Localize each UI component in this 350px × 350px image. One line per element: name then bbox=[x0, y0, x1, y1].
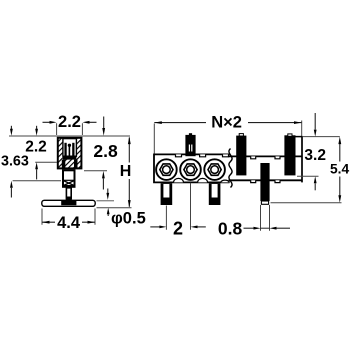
svg-text:H: H bbox=[120, 163, 132, 180]
svg-text:N×2: N×2 bbox=[211, 113, 242, 131]
3.2 bottom ext line bbox=[297, 175, 319, 177]
dimension 2.2 top: arrows bbox=[50, 121, 57, 124]
svg-text:5.4: 5.4 bbox=[330, 161, 350, 176]
dimension 3.63: top arrow bbox=[10, 126, 12, 131]
contact spring left bbox=[64, 143, 66, 156]
cavity shelf bbox=[63, 156, 77, 159]
top edge notches right bbox=[251, 156, 280, 158]
dimension 4.4: dim line + arrows bbox=[42, 221, 95, 223]
section pin up C bbox=[284, 135, 295, 175]
dimension 3.63: bottom ext line bbox=[13, 180, 61, 182]
svg-text:3.63: 3.63 bbox=[1, 153, 29, 169]
pin P3 below U3 bbox=[209, 183, 221, 205]
section pin down B bbox=[260, 163, 269, 201]
dimension phi0.5: upper arrow bbox=[107, 189, 109, 194]
body top extension line bbox=[9, 135, 130, 137]
dimension 2.2 left: bottom arrow bbox=[35, 162, 38, 169]
dimension 3.63: bottom arrow bbox=[10, 181, 13, 188]
legs (solder leads) bbox=[42, 200, 95, 206]
contact spring right bbox=[72, 143, 74, 156]
contact needle bbox=[68, 144, 71, 147]
socket contact U1 bbox=[156, 159, 177, 180]
svg-text:4.4: 4.4 bbox=[57, 214, 81, 232]
svg-text:2.8: 2.8 bbox=[93, 141, 118, 161]
dimension 2.2 left: top arrow bbox=[36, 126, 38, 131]
leg junction fill bbox=[61, 197, 76, 206]
socket tube wall right bbox=[74, 160, 78, 169]
pin top ext line (3.2 / 5.4 top) bbox=[303, 136, 340, 138]
dimension 0.8: right-pointing arrow bbox=[244, 227, 255, 229]
pin P1 below U1 bbox=[161, 183, 173, 205]
pin shank bbox=[66, 188, 71, 199]
dimension 2: right arrow bbox=[191, 226, 198, 229]
dimension 2: left arrow bbox=[150, 226, 159, 228]
socket tube wall left bbox=[62, 160, 66, 169]
section pin up A bbox=[236, 136, 246, 176]
svg-text:0.8: 0.8 bbox=[218, 218, 243, 238]
dimension phi0.5: lower arrow bbox=[107, 208, 110, 215]
dimension 2.8: top arrow bbox=[103, 117, 105, 129]
top edge notches bbox=[176, 154, 229, 156]
socket cavity bbox=[63, 139, 77, 157]
housing body (hatched) left view bbox=[58, 138, 82, 169]
dimension 3.2: top arrow bbox=[314, 113, 316, 130]
dimension Nx2: dim line bbox=[154, 122, 301, 124]
stem bbox=[63, 170, 75, 187]
bottom edge tabs right bbox=[251, 180, 280, 182]
dimension 3.2: bottom arrow bbox=[314, 176, 317, 183]
leg top ext line bbox=[97, 200, 115, 202]
dimension 0.8: ext lines bbox=[261, 205, 270, 231]
dimension H: dim line bbox=[128, 138, 130, 207]
dimension 2.2 top: dim line left segment bbox=[43, 121, 97, 123]
5.4 bottom ext line bbox=[271, 202, 342, 204]
housing strip left part bbox=[154, 154, 230, 182]
svg-text:3.2: 3.2 bbox=[304, 147, 326, 164]
leg bottom ext line bbox=[97, 207, 132, 209]
dimension 0.8: left-pointing arrow bbox=[270, 227, 277, 230]
dimension 4.4: ext lines bbox=[42, 209, 95, 225]
dimension 2.2 top: extension lines bbox=[57, 123, 83, 135]
dimension H: text bbox=[120, 164, 134, 178]
socket contact U2 bbox=[180, 159, 201, 180]
housing strip right part (section) bbox=[229, 156, 303, 180]
dimension 5.4: dim line + inside arrows bbox=[339, 141, 341, 198]
svg-text:2.2: 2.2 bbox=[58, 113, 81, 131]
break squiggle bbox=[229, 149, 232, 188]
dimension 2.8: bottom arrow bbox=[102, 171, 105, 179]
bottom edge arches bbox=[174, 178, 230, 182]
stem crimp X bbox=[64, 181, 75, 186]
pin P2 above U2 bbox=[185, 135, 195, 156]
socket contact U3 bbox=[204, 159, 225, 180]
end cap bbox=[301, 137, 303, 183]
dimension 2.2 left: bottom ext line bbox=[35, 161, 57, 163]
svg-text:φ0.5: φ0.5 bbox=[111, 209, 146, 227]
svg-text:2: 2 bbox=[173, 219, 183, 239]
dimension Nx2: ext lines bbox=[154, 121, 301, 154]
dimension 2: ext lines bbox=[166, 183, 190, 230]
dimension 2.8: bottom ext line bbox=[84, 170, 107, 172]
